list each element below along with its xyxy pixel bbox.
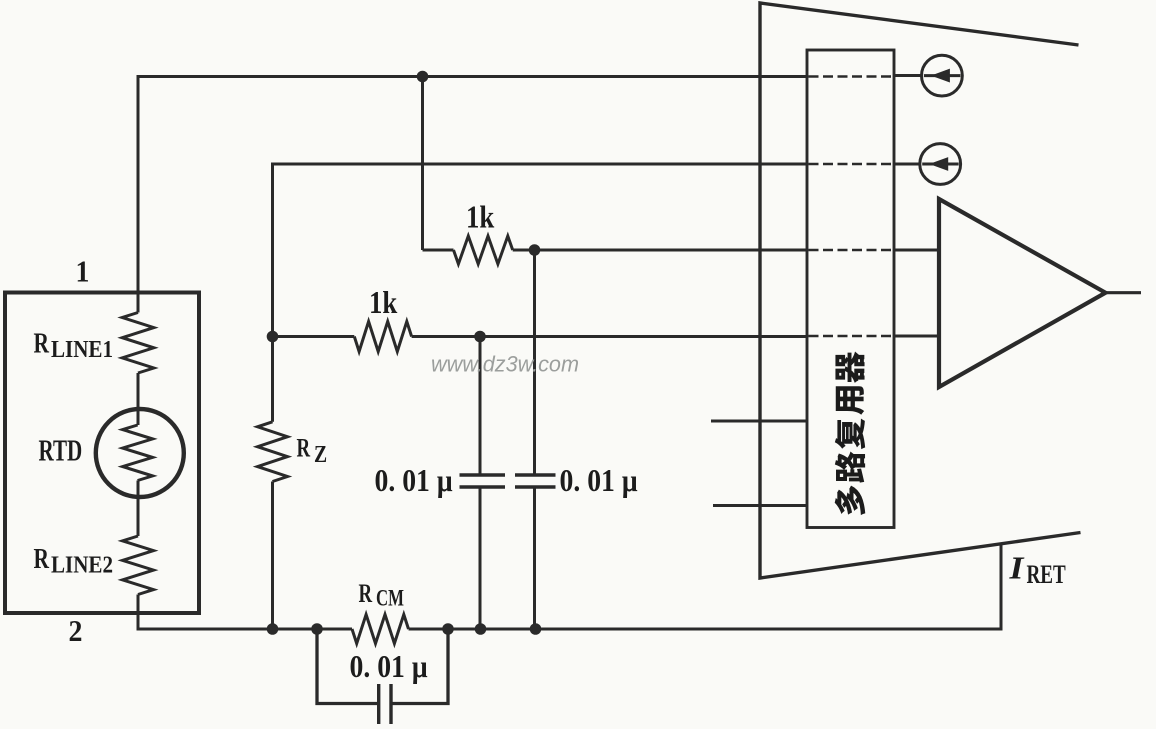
wire J1 down	[421, 77, 424, 251]
dashed channel 1	[809, 75, 894, 78]
node J7	[442, 623, 454, 635]
resistor 1k lower	[273, 322, 808, 352]
svg-text:Z: Z	[314, 440, 327, 467]
current source I1	[922, 55, 963, 96]
capacitor C2 plates	[515, 475, 556, 487]
resistor RLINE1	[122, 313, 154, 374]
wire second row to mux	[273, 164, 808, 422]
wire bottom rail right	[409, 543, 1002, 629]
svg-text:LINE2: LINE2	[51, 551, 113, 578]
node J4	[474, 331, 486, 343]
svg-text:0. 01 μ: 0. 01 μ	[350, 650, 428, 684]
wire RZ down	[271, 482, 274, 630]
svg-text:R: R	[297, 433, 311, 462]
dashed channel 3	[809, 249, 894, 252]
capacitor C3 plates	[379, 684, 391, 724]
resistor RZ body	[258, 422, 288, 482]
svg-text:2: 2	[69, 615, 83, 649]
svg-text:R: R	[34, 542, 50, 575]
wire RLINE1-RTD	[137, 373, 140, 425]
svg-text:1k: 1k	[466, 201, 495, 235]
wire J4 down	[479, 337, 482, 474]
svg-text:CM: CM	[376, 586, 404, 611]
wire mux to amp in2	[894, 335, 939, 338]
RTD zigzag	[123, 425, 153, 481]
wire C2 down	[533, 489, 536, 630]
capacitor C1 plates	[460, 475, 506, 487]
resistor RCM body	[352, 615, 409, 644]
svg-text:1k: 1k	[369, 286, 398, 320]
dashed channel 2	[809, 163, 894, 166]
svg-text:0. 01 μ: 0. 01 μ	[560, 464, 638, 498]
svg-text:RET: RET	[1027, 559, 1067, 589]
node J6	[311, 623, 323, 635]
stub input 2	[713, 504, 807, 507]
node J9	[530, 623, 542, 635]
wire amp output	[1106, 291, 1142, 294]
stub input 1	[711, 420, 807, 423]
wire bottom rail left	[138, 613, 352, 629]
node J2	[529, 244, 541, 256]
svg-text:I: I	[1008, 551, 1025, 586]
svg-text:www.dz3w.com: www.dz3w.com	[431, 352, 579, 377]
wire mux to amp in1	[894, 249, 939, 252]
wire J2 down	[533, 250, 536, 474]
svg-text:LINE1: LINE1	[51, 336, 113, 363]
mux box	[807, 50, 894, 528]
node J8	[475, 623, 487, 635]
wire RLINE2 down	[137, 595, 140, 630]
svg-text:RTD: RTD	[39, 432, 83, 467]
node J1	[417, 71, 429, 83]
mux label 多路复用器 (rotated)	[835, 352, 864, 383]
node J5	[267, 623, 279, 635]
wire node1 up and to mux	[138, 77, 807, 313]
wire RTD-RLINE2	[137, 481, 140, 537]
wire mux to source2	[894, 163, 920, 166]
ADC outline trapezoid	[760, 3, 1081, 578]
svg-text:R: R	[359, 579, 373, 608]
wire C3 branch	[317, 629, 448, 704]
current source I2	[920, 144, 961, 185]
resistor RLINE2	[123, 536, 154, 595]
svg-text:1: 1	[76, 255, 90, 289]
svg-text:0. 01 μ: 0. 01 μ	[375, 464, 453, 498]
svg-text:R: R	[34, 326, 50, 359]
RTD circle	[96, 409, 184, 497]
wire mux to source1	[894, 74, 922, 77]
wire C1 down	[479, 489, 482, 630]
node J3	[267, 331, 279, 343]
dashed channel 4	[809, 335, 894, 338]
op-amp triangle	[939, 199, 1106, 387]
sensor box	[5, 293, 199, 614]
resistor 1k upper	[423, 236, 808, 264]
